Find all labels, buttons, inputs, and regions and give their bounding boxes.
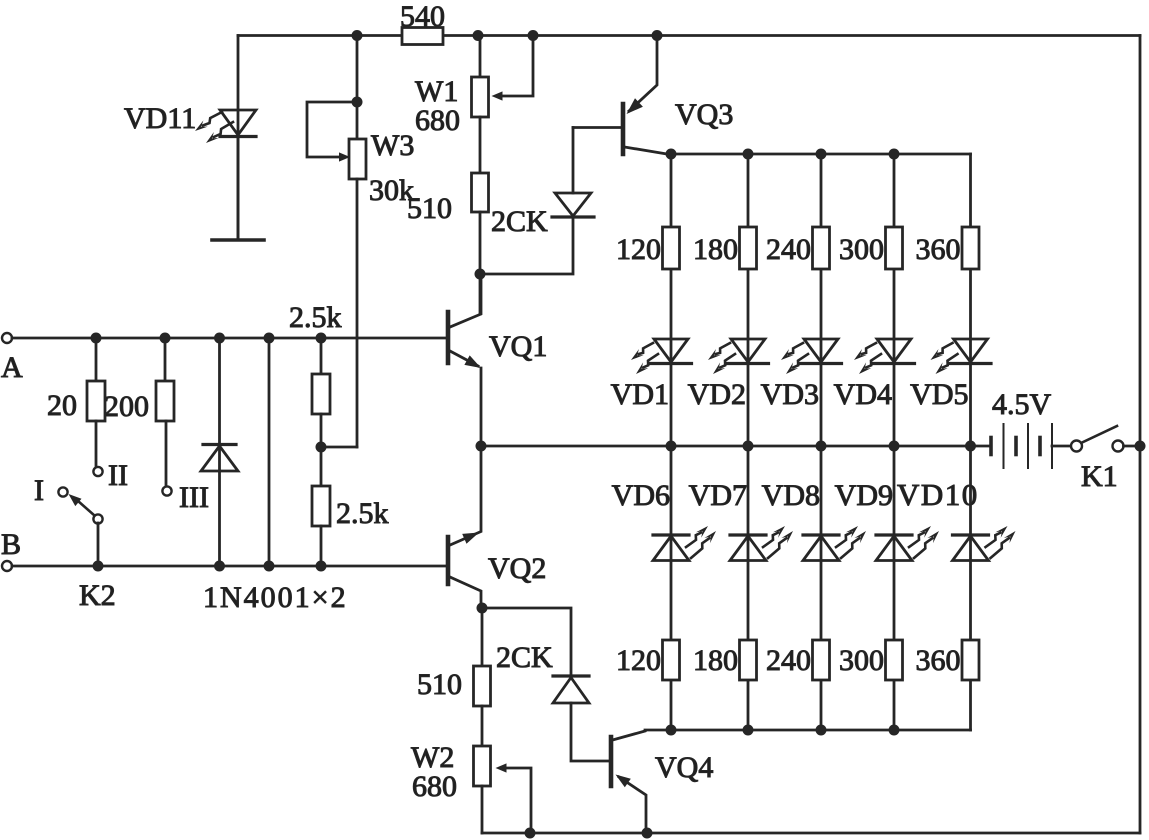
svg-text:VD6: VD6 (612, 479, 670, 512)
svg-text:VD8: VD8 (762, 479, 820, 512)
node VD2 rail2 (743, 441, 754, 452)
transistor VQ2 emitter arrow (462, 533, 479, 544)
label VD8 (762, 479, 820, 512)
label VQ1 (489, 330, 547, 363)
LED VD6 bar (653, 533, 689, 536)
wire VQ2col down (481, 608, 484, 666)
svg-text:2CK: 2CK (496, 641, 553, 674)
svg-text:540: 540 (400, 0, 445, 33)
svg-text:VQ3: VQ3 (675, 98, 733, 131)
label 680 bottom (412, 770, 457, 803)
diode 2CK top bar (552, 215, 594, 218)
switch K2 blade (78, 501, 95, 516)
node rowB K2 (93, 561, 104, 572)
node rail3 x821 (816, 725, 827, 736)
LED VD1 triangle (654, 339, 688, 362)
wire top supply rail (238, 34, 1140, 37)
label VD3 (761, 378, 819, 411)
LED VD10 bar (953, 533, 989, 536)
label 680 (415, 104, 460, 137)
node rail1 x821 (816, 149, 827, 160)
node VD4 rail2 (889, 441, 900, 452)
label W2 (411, 741, 454, 774)
LED VD9 triangle (876, 536, 912, 561)
label 2CK bottom (496, 641, 553, 674)
LED VD10 arrows (986, 526, 1016, 558)
LED VD8 bar (803, 533, 839, 536)
switch K2 blade arrow (69, 494, 82, 506)
node K1 right rail (1135, 441, 1146, 452)
wire 2CKb bottom lead (571, 703, 609, 761)
resistor 120 (top) body (663, 227, 680, 269)
label VD11 (124, 102, 196, 135)
wire VQ1 emitter down (480, 368, 483, 446)
svg-text:VD2: VD2 (688, 378, 746, 411)
wire W1 top (479, 36, 482, 78)
wire VQ1 collector (450, 274, 481, 327)
transistor VQ4 emitter arrow (616, 775, 631, 788)
resistor 2.5k-1 body (312, 374, 330, 414)
node VD5 rail2 (965, 441, 976, 452)
label 120 bottom (616, 644, 661, 677)
resistor 2.5k-2 body (312, 486, 330, 526)
wire W3 wiper loop (307, 102, 357, 157)
label 20 (47, 389, 77, 422)
label A (1, 351, 23, 384)
wire VQ1 emitter (450, 351, 478, 366)
svg-text:A: A (1, 351, 23, 384)
label 120 top (616, 233, 661, 266)
wire 510b-W2 (481, 706, 484, 746)
node 2.5k junction (316, 442, 327, 453)
label K1 (1081, 460, 1118, 493)
label VD9 (835, 479, 893, 512)
wire VQ2 emitter up (450, 446, 481, 545)
terminal B (2, 561, 12, 571)
LED VD9 bar (876, 533, 912, 536)
LED VD3 triangle (804, 339, 838, 362)
svg-text:VQ2: VQ2 (488, 552, 546, 585)
node VQ2 collector junction (477, 603, 488, 614)
svg-text:360: 360 (916, 233, 961, 266)
LED VD2 arrows (708, 343, 735, 374)
wire VQ3 emitter lead (629, 36, 657, 112)
diode 2CK bottom triangle (553, 678, 589, 704)
diode 1N4001 bar (203, 443, 236, 446)
transistor VQ3 emitter arrow (627, 98, 643, 114)
label 300 top (839, 233, 884, 266)
resistor 360 (top) body (962, 227, 979, 269)
wire VQ4 emitter (619, 777, 646, 833)
svg-text:20: 20 (47, 389, 77, 422)
label VQ2 (488, 552, 546, 585)
label 1N4001x2 (203, 581, 348, 614)
label VD6 (612, 479, 670, 512)
label 510 bottom (417, 668, 462, 701)
node VD3 rail2 (816, 441, 827, 452)
resistor 180 (bottom) body (740, 640, 757, 680)
svg-text:300: 300 (839, 233, 884, 266)
node rail1 x748 (743, 149, 754, 160)
LED VD1 bar (651, 362, 692, 365)
node top-junction W1-wiper (528, 30, 539, 41)
label VD1 (611, 378, 669, 411)
svg-text:360: 360 (916, 644, 961, 677)
wire VQ2 collector down (450, 577, 481, 608)
svg-text:VD4: VD4 (834, 378, 892, 411)
LED VD11 cathode bar (220, 135, 256, 138)
switch K1 blade (1082, 426, 1117, 443)
label 240 top (766, 233, 811, 266)
label VQ3 (675, 98, 733, 131)
LED VD9 arrows (909, 526, 939, 558)
svg-text:680: 680 (415, 104, 460, 137)
wire VQ3 collector rail (670, 153, 971, 156)
label K2 (79, 579, 116, 612)
label VD10 (897, 477, 979, 512)
svg-text:II: II (108, 459, 128, 492)
wire battery-K1 (1052, 445, 1071, 448)
wire W1 wiper (500, 36, 533, 97)
svg-text:VD3: VD3 (761, 378, 819, 411)
node rowB 2.5k (316, 561, 327, 572)
node rowB D1 (214, 561, 225, 572)
node rail3 x671 (666, 725, 677, 736)
label 2.5k top (289, 301, 342, 334)
diode 1N4001 triangle (201, 446, 238, 471)
resistor 300 (top) body (886, 227, 903, 269)
resistor 200 body (156, 381, 174, 421)
diode 2CK bottom bar (553, 674, 589, 677)
svg-text:B: B (1, 528, 21, 561)
resistor 360 (bottom) body (962, 640, 979, 680)
label W3 (371, 129, 414, 162)
wire 2.5k-1 top (320, 338, 323, 374)
svg-text:VD5: VD5 (910, 378, 968, 411)
wire column VD3/VD8 (820, 154, 823, 730)
LED VD2 triangle (731, 339, 765, 362)
label 510 (407, 192, 452, 225)
svg-text:VD1: VD1 (611, 378, 669, 411)
label 4.5V (992, 388, 1052, 421)
label III (179, 481, 209, 514)
LED VD5 bar (950, 362, 991, 365)
switch K1 pole (1071, 441, 1082, 452)
svg-text:K1: K1 (1081, 460, 1118, 493)
node W2 wiper bottom (525, 828, 536, 839)
LED VD1 arrows (631, 343, 658, 374)
LED VD6 arrows (686, 526, 716, 558)
label 180 top (693, 233, 738, 266)
wire row B (12, 565, 446, 568)
svg-text:III: III (179, 481, 209, 514)
LED VD7 arrows (763, 526, 793, 558)
label II (108, 459, 128, 492)
svg-text:VD11: VD11 (124, 102, 196, 135)
label W1 (415, 75, 458, 108)
resistor 20 body (87, 381, 105, 421)
label 360 top (916, 233, 961, 266)
label 2.5k bottom (336, 497, 389, 530)
LED VD4 triangle (877, 339, 911, 362)
terminal III (162, 486, 171, 495)
svg-text:W3: W3 (371, 129, 414, 162)
wire VD11 cathode (237, 137, 240, 240)
LED VD4 arrows (854, 343, 881, 374)
resistor 300 (bottom) body (886, 640, 903, 680)
LED VD8 triangle (803, 536, 839, 561)
wire W3 bottom (321, 179, 357, 447)
wire K1-right (1124, 445, 1141, 448)
svg-text:180: 180 (693, 644, 738, 677)
LED VD5 triangle (954, 339, 988, 362)
svg-text:K2: K2 (79, 579, 116, 612)
node rowA 2.5k (316, 333, 327, 344)
wire W2 bottom (481, 786, 484, 833)
svg-text:I: I (34, 474, 44, 507)
switch K1 throw (1113, 441, 1124, 452)
terminal II (93, 467, 102, 476)
LED VD6 triangle (653, 536, 689, 561)
label VD2 (688, 378, 746, 411)
wire K2-rowB (97, 523, 100, 566)
potentiometer W1 body (472, 77, 489, 117)
wire bottom rail (482, 832, 1140, 835)
terminal A (2, 333, 12, 343)
LED VD10 triangle (953, 536, 989, 561)
resistor 120 (bottom) body (663, 640, 680, 680)
wire VQ4 collector (613, 731, 646, 740)
LED VD11 triangle (220, 110, 256, 135)
transistor VQ3 base bar (621, 104, 626, 154)
svg-text:180: 180 (693, 233, 738, 266)
LED VD8 arrows (836, 526, 866, 558)
svg-text:2.5k: 2.5k (336, 497, 389, 530)
potentiometer W2 body (474, 746, 491, 786)
W3 wiper arrow (339, 152, 350, 161)
wire diode1 column (218, 338, 221, 566)
node rowB D2 (264, 561, 275, 572)
wire 510 bottom (479, 212, 482, 314)
label 300 bottom (839, 644, 884, 677)
node 510/2CK junction (475, 269, 486, 280)
wire 200 bottom (165, 421, 168, 486)
wire VD11 anode (237, 36, 240, 241)
node mid rail left (VQ1/VQ2 emitters) (476, 441, 487, 452)
resistor 240 (top) body (813, 227, 830, 269)
label B (1, 528, 21, 561)
svg-text:VD7: VD7 (689, 479, 747, 512)
LED VD3 bar (801, 362, 842, 365)
resistor 540 body (402, 28, 443, 45)
transistor VQ4 base bar (609, 737, 614, 786)
LED VD5 arrows (931, 343, 958, 374)
wire W2 wiper (504, 768, 531, 833)
node rail1 x894 (889, 149, 900, 160)
label VD4 (834, 378, 892, 411)
resistor 240 (bottom) body (813, 640, 830, 680)
transistor VQ1 base bar (446, 312, 451, 363)
transistor VQ2 base bar (446, 537, 451, 584)
wire 2CK top lead (572, 128, 575, 194)
wire 2.5k-2 bottom (320, 526, 323, 566)
wire column VD4/VD9 (893, 154, 896, 730)
wire 200 top (164, 338, 167, 381)
label 240 bottom (766, 644, 811, 677)
svg-text:4.5V: 4.5V (992, 388, 1052, 421)
svg-text:300: 300 (839, 644, 884, 677)
label 2CK top (491, 205, 548, 238)
node rowA 20 (91, 333, 102, 344)
wire 2.5k middle (320, 414, 323, 486)
label 200 (104, 390, 149, 423)
label 180 bottom (693, 644, 738, 677)
svg-text:200: 200 (104, 390, 149, 423)
ground (212, 238, 264, 242)
wire 20 bottom (95, 421, 98, 467)
label 30k (369, 174, 414, 207)
node rowA D2 (264, 333, 275, 344)
svg-text:VQ1: VQ1 (489, 330, 547, 363)
switch K2 pole circle (93, 514, 102, 523)
node top-junction VQ3 (652, 30, 663, 41)
label VQ4 (655, 751, 713, 784)
resistor 180 (top) body (740, 227, 757, 269)
svg-text:VQ4: VQ4 (655, 751, 713, 784)
svg-text:120: 120 (616, 233, 661, 266)
svg-text:2CK: 2CK (491, 205, 548, 238)
wire 20 top (95, 338, 98, 381)
label 360 bottom (916, 644, 961, 677)
wire column VD1/VD6 (670, 154, 673, 730)
label VD7 (689, 479, 747, 512)
diode 2CK top triangle (555, 193, 591, 216)
svg-text:VD10: VD10 (897, 477, 979, 512)
node rowA 200 (160, 333, 171, 344)
transistor VQ1 emitter arrow (464, 355, 481, 368)
wire VQ4 collector rail (645, 729, 971, 732)
LED VD4 bar (874, 362, 915, 365)
node rail3 x894 (889, 725, 900, 736)
resistor 510b body (474, 666, 491, 706)
LED VD7 bar (730, 533, 766, 536)
terminal I (58, 487, 67, 496)
svg-text:VD9: VD9 (835, 479, 893, 512)
wire mid rail (481, 445, 990, 448)
node rail3 x748 (743, 725, 754, 736)
svg-text:240: 240 (766, 233, 811, 266)
resistor 510 body (472, 173, 489, 212)
node top-junction W3 (352, 30, 363, 41)
wire 2CK bottom lead (480, 217, 573, 274)
LED VD2 bar (728, 362, 769, 365)
svg-text:510: 510 (407, 192, 452, 225)
LED VD11 arrows (195, 112, 233, 143)
node VD1 rail2 (666, 441, 677, 452)
svg-text:120: 120 (616, 644, 661, 677)
svg-text:510: 510 (417, 668, 462, 701)
node W3 wiper junction (352, 97, 363, 108)
label 540 (400, 0, 445, 33)
svg-text:240: 240 (766, 644, 811, 677)
svg-text:680: 680 (412, 770, 457, 803)
wire diode2 column (268, 338, 271, 566)
wire row A (12, 337, 446, 340)
node rowA D1 (214, 333, 225, 344)
wire 2CKb top lead (482, 608, 571, 676)
wire right side rail (1139, 36, 1142, 834)
label I (34, 474, 44, 507)
wire column VD5/VD10 (969, 154, 972, 730)
wire W1-510 (479, 117, 482, 173)
svg-text:1N4001×2: 1N4001×2 (203, 581, 348, 614)
potentiometer W3 body (349, 139, 366, 179)
node rail1 x671 (666, 149, 677, 160)
wire VQ3 collector lead (625, 147, 671, 155)
W1 wiper arrow (492, 91, 503, 100)
node top-junction W1 (473, 30, 484, 41)
wire VQ3 base (573, 126, 621, 129)
node VQ4 emitter bottom (642, 828, 653, 839)
LED VD3 arrows (781, 343, 808, 374)
svg-text:2.5k: 2.5k (289, 301, 342, 334)
wire W3 top (356, 36, 359, 140)
battery 4.5V plates (991, 424, 1052, 468)
LED VD7 triangle (730, 536, 766, 561)
label VD5 (910, 378, 968, 411)
wire column VD2/VD7 (747, 154, 750, 730)
W2 wiper arrow (496, 763, 507, 772)
